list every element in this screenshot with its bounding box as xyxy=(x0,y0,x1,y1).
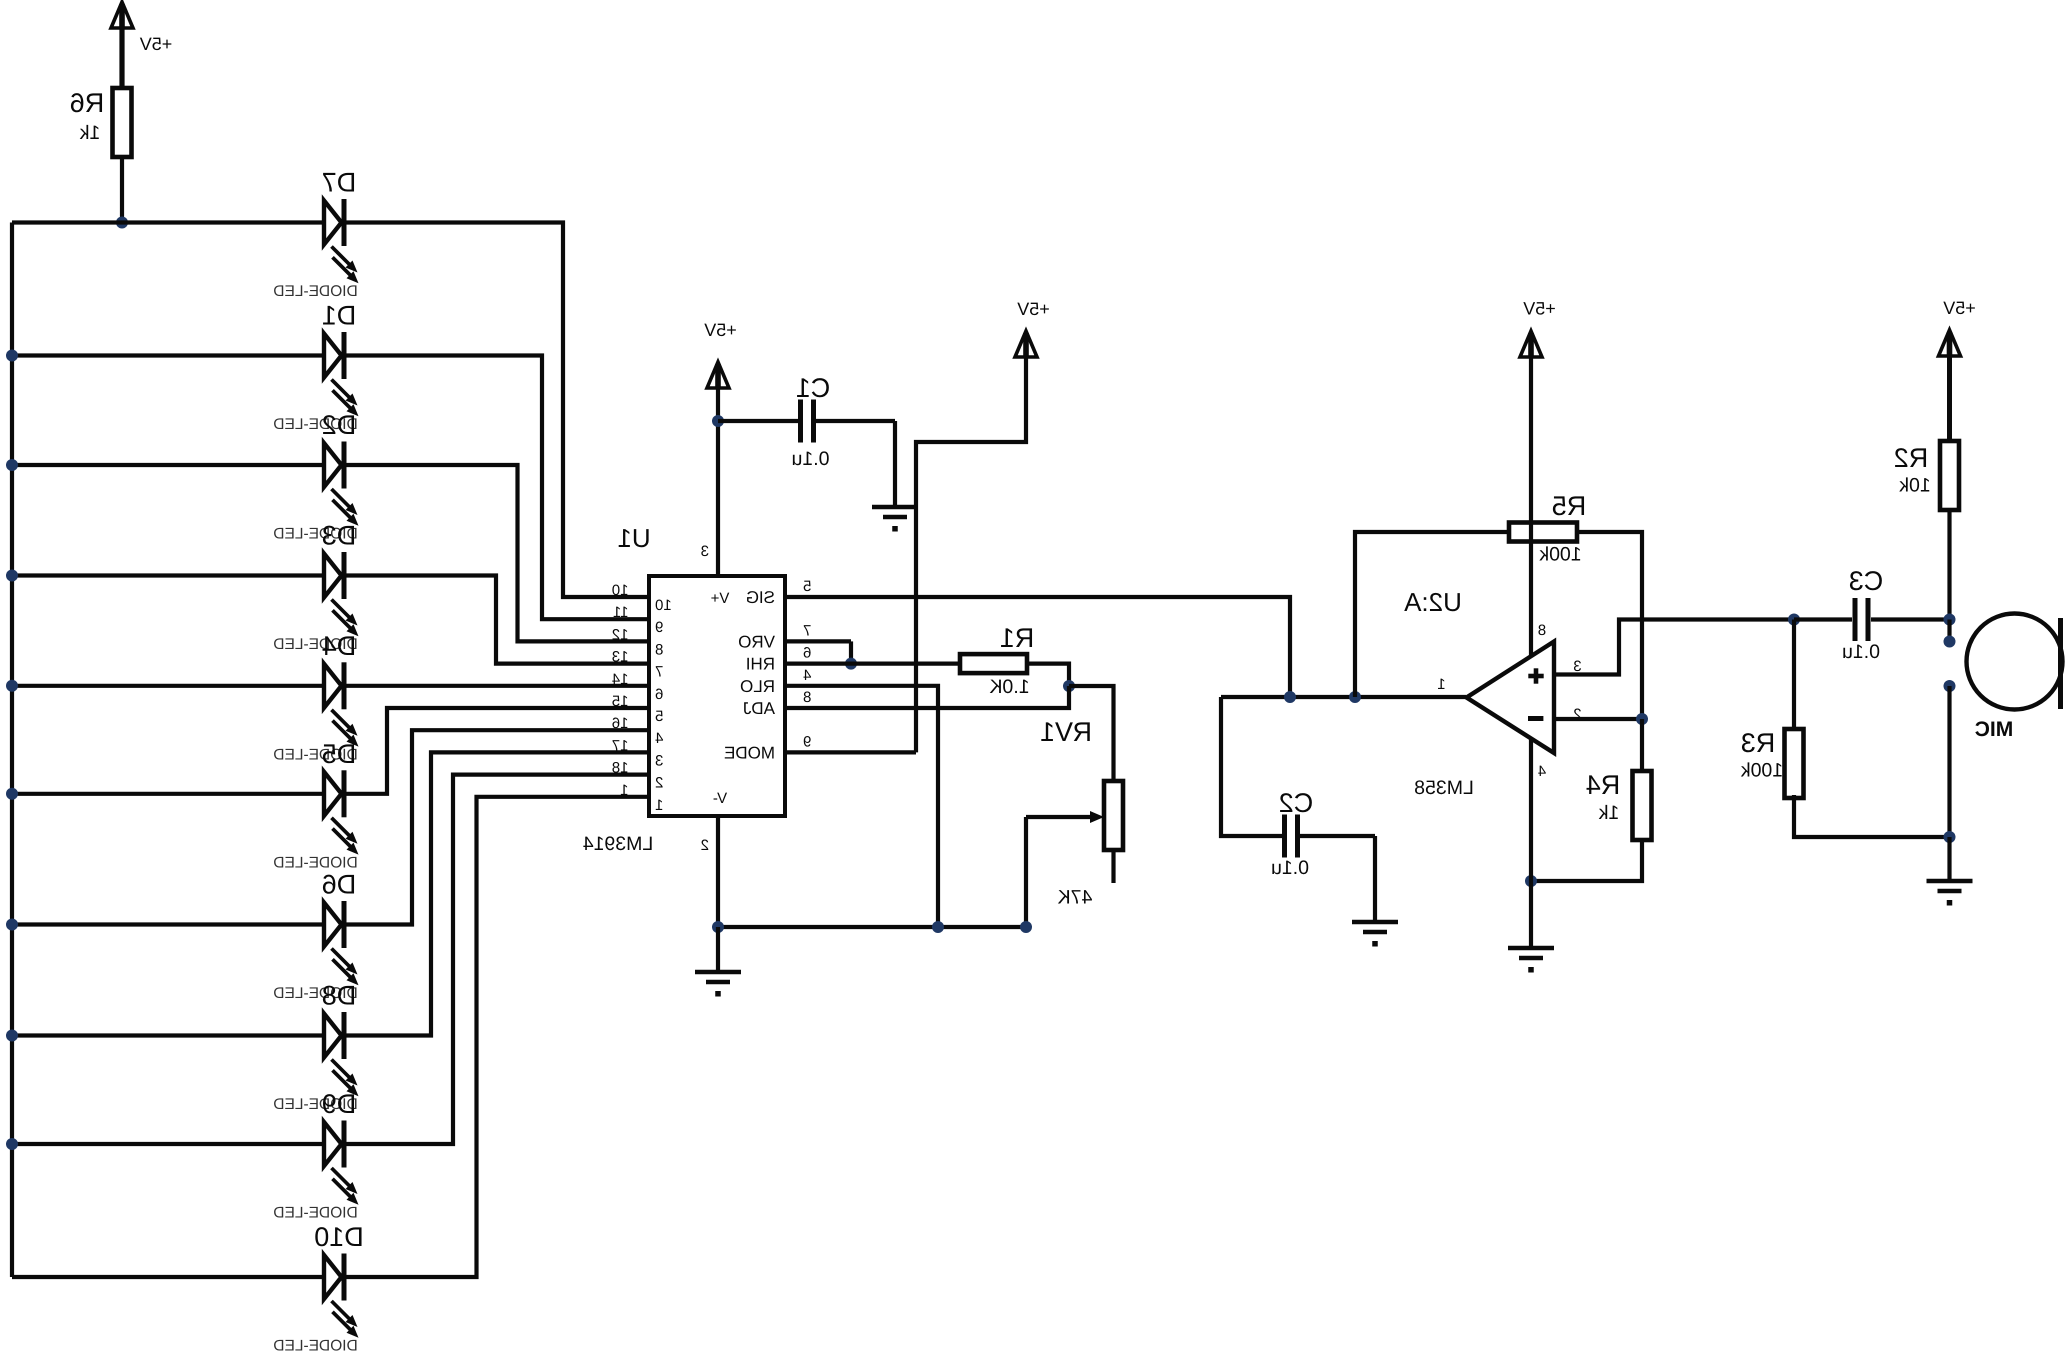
wire D3 cathode to U1 pin xyxy=(346,576,649,664)
svg-text:18: 18 xyxy=(612,760,629,777)
power +5V terminal (MODE) xyxy=(1015,331,1037,357)
wire junction to RV1 top xyxy=(1069,686,1114,781)
junction R6 / D7 row xyxy=(116,217,128,229)
wire SIG pin5 to op-amp output xyxy=(785,597,1290,697)
svg-text:0.1u: 0.1u xyxy=(792,448,830,470)
svg-text:1: 1 xyxy=(1437,676,1445,693)
svg-text:7: 7 xyxy=(803,622,811,639)
svg-text:+5V: +5V xyxy=(1943,298,1976,318)
junction bus / D1 row xyxy=(6,350,18,362)
wire VRO down to RHI xyxy=(849,641,853,663)
wire R2 to mic node xyxy=(1947,510,1951,620)
capacitor C2 xyxy=(1282,815,1287,858)
svg-text:D1: D1 xyxy=(322,301,357,331)
svg-text:2: 2 xyxy=(655,775,663,792)
junction V+ riser / C1 xyxy=(712,415,724,427)
junction pin2 / R5 / R4 xyxy=(1636,713,1648,725)
svg-text:R1: R1 xyxy=(1000,623,1035,653)
wire RV1 bottom stub xyxy=(1111,850,1115,883)
svg-text:3: 3 xyxy=(655,752,663,769)
wire U1 V- down xyxy=(716,816,720,927)
wire D4 cathode to U1 pin xyxy=(346,684,649,688)
svg-text:RV1: RV1 xyxy=(1040,717,1092,747)
wire MODE stub xyxy=(785,750,916,754)
LED D3 (DIODE-LED) xyxy=(324,552,359,636)
power +5V terminal (U2 V+) xyxy=(1520,331,1542,357)
wire D10 cathode to U1 pin xyxy=(346,797,649,1277)
svg-text:D2: D2 xyxy=(322,410,357,440)
wire non-inverting input pin3 xyxy=(1554,620,1794,675)
ground (MIC) xyxy=(1927,879,1973,884)
svg-text:12: 12 xyxy=(612,626,629,643)
wire bus to D4 anode xyxy=(12,684,324,688)
svg-text:C2: C2 xyxy=(1279,788,1314,818)
svg-text:8: 8 xyxy=(655,641,663,658)
wire MIC pin 2 to ground rail xyxy=(1947,686,1951,837)
junction R4 / V- xyxy=(1525,875,1537,887)
svg-text:0.1u: 0.1u xyxy=(1271,857,1309,879)
wire down to ground xyxy=(893,421,897,505)
potentiometer RV1 body xyxy=(1104,781,1123,850)
wire R3 bottom to ground rail xyxy=(1794,795,1950,837)
junction bus / D8 row xyxy=(6,1030,18,1042)
svg-text:R2: R2 xyxy=(1894,443,1929,473)
svg-text:11: 11 xyxy=(613,604,629,621)
svg-text:RLO: RLO xyxy=(740,677,775,696)
plus input marker xyxy=(1528,674,1543,679)
svg-text:D6: D6 xyxy=(322,870,357,900)
LED D1 (DIODE-LED) xyxy=(324,332,359,416)
svg-text:15: 15 xyxy=(612,693,629,710)
power +5V terminal (R6 supply) xyxy=(111,2,133,28)
resistor R1 xyxy=(960,654,1027,673)
svg-text:D9: D9 xyxy=(322,1089,357,1119)
svg-text:D5: D5 xyxy=(322,739,357,769)
wire to C3 xyxy=(1794,617,1852,621)
wire bus to D5 anode xyxy=(12,792,324,796)
svg-text:LM358: LM358 xyxy=(1414,777,1474,799)
junction bus / D3 row xyxy=(6,570,18,582)
wire to R4 xyxy=(1640,719,1644,771)
wire R1 to ADJ junction xyxy=(1027,664,1069,686)
svg-text:+5V: +5V xyxy=(704,320,737,340)
svg-text:1: 1 xyxy=(620,782,628,799)
resistor R3 xyxy=(1785,729,1804,798)
wire output to C2 xyxy=(1221,697,1282,836)
capacitor C3 xyxy=(1853,598,1858,641)
wire D2 cathode to U1 pin xyxy=(346,465,649,641)
svg-text:R4: R4 xyxy=(1586,770,1621,800)
svg-text:DIODE-LED: DIODE-LED xyxy=(273,1338,357,1355)
svg-text:8: 8 xyxy=(803,689,811,706)
svg-text:D7: D7 xyxy=(322,168,357,198)
wire R5 to inverting input xyxy=(1577,532,1642,719)
svg-text:V+: V+ xyxy=(710,590,729,607)
svg-text:3: 3 xyxy=(701,543,709,560)
svg-text:D3: D3 xyxy=(322,521,357,551)
wire RLO pin4 to bottom rail xyxy=(785,686,938,927)
wire rail to ground xyxy=(716,927,720,970)
svg-text:4: 4 xyxy=(803,667,811,684)
svg-text:RHI: RHI xyxy=(746,655,775,674)
resistor R6 xyxy=(113,88,132,157)
svg-text:6: 6 xyxy=(803,645,811,662)
svg-text:C1: C1 xyxy=(796,373,831,403)
svg-text:13: 13 xyxy=(612,649,629,666)
resistor R5 xyxy=(1509,523,1577,542)
ground (C2) xyxy=(1352,920,1398,925)
junction bus / D2 row xyxy=(6,459,18,471)
wire to C1 xyxy=(718,419,798,423)
svg-text:9: 9 xyxy=(803,733,811,750)
wire feedback to R5 xyxy=(1355,532,1509,697)
wire RHI to R1 xyxy=(785,661,960,665)
svg-text:8: 8 xyxy=(1538,622,1546,639)
ground (C1) xyxy=(872,505,918,510)
wire C3 to mic node xyxy=(1871,617,1950,621)
junction pin3 / C3 / R3 xyxy=(1788,614,1800,626)
svg-text:5: 5 xyxy=(803,578,811,595)
junction R2 / C3 / MIC xyxy=(1944,614,1956,626)
wire VRO stub xyxy=(785,639,851,643)
junction R3 / MIC / ground xyxy=(1944,831,1956,843)
svg-text:7: 7 xyxy=(655,664,663,681)
MIC pin 2 terminal xyxy=(1944,680,1956,692)
IC U1 LM3914 body xyxy=(649,576,785,816)
RV1 wiper arrow xyxy=(1026,815,1092,819)
svg-text:V-: V- xyxy=(713,790,727,807)
wire +5V to pin 8 xyxy=(1529,356,1533,656)
junction rail / RLO xyxy=(932,921,944,933)
svg-text:100k: 100k xyxy=(1539,544,1582,566)
svg-text:DIODE-LED: DIODE-LED xyxy=(273,283,357,300)
wire down to R3 xyxy=(1792,620,1796,730)
power +5V terminal (R2) xyxy=(1939,330,1961,356)
junction bus / D9 row xyxy=(6,1138,18,1150)
wire +5V to R6 xyxy=(119,27,124,88)
svg-text:1k: 1k xyxy=(79,122,100,144)
svg-text:1.0K: 1.0K xyxy=(989,676,1029,698)
resistor R2 xyxy=(1940,441,1959,510)
svg-text:MODE: MODE xyxy=(724,743,775,762)
resistor R4 xyxy=(1633,771,1652,840)
svg-text:U2:A: U2:A xyxy=(1403,587,1461,617)
wire D6 cathode to U1 pin xyxy=(346,730,649,924)
ground (U2) xyxy=(1508,946,1554,951)
svg-text:+5V: +5V xyxy=(1017,299,1050,319)
svg-text:2: 2 xyxy=(701,837,709,854)
svg-text:6: 6 xyxy=(655,686,663,703)
svg-text:10: 10 xyxy=(655,597,672,614)
wire pin2 stub xyxy=(1554,717,1642,721)
svg-text:10: 10 xyxy=(612,582,629,599)
wire op-amp output xyxy=(1221,695,1466,699)
wire R6 to D7 anode row xyxy=(120,157,124,223)
microphone MIC body xyxy=(1967,614,2063,710)
svg-text:5: 5 xyxy=(655,708,663,725)
svg-text:R6: R6 xyxy=(70,88,105,118)
svg-text:DIODE-LED: DIODE-LED xyxy=(273,1205,357,1222)
wire R4 bottom to V- rail xyxy=(1531,841,1642,881)
svg-text:9: 9 xyxy=(655,619,663,636)
svg-text:R3: R3 xyxy=(1741,728,1776,758)
wire pin 4 to ground xyxy=(1529,738,1533,946)
svg-text:+5V: +5V xyxy=(1523,299,1556,319)
wire ADJ pin8 xyxy=(785,686,1069,708)
wire to MIC pin 1 xyxy=(1947,620,1951,642)
LED D10 (DIODE-LED) xyxy=(324,1254,359,1338)
wire left anode bus xyxy=(10,223,14,1278)
LED D6 (DIODE-LED) xyxy=(324,901,359,985)
svg-text:MIC: MIC xyxy=(1975,718,2014,741)
wire wiper down to rail xyxy=(1024,817,1028,927)
svg-text:14: 14 xyxy=(612,671,629,688)
svg-text:10k: 10k xyxy=(1899,475,1931,497)
svg-text:C3: C3 xyxy=(1849,566,1884,596)
LED D5 (DIODE-LED) xyxy=(324,770,359,854)
wire bus to D1 anode xyxy=(12,353,324,357)
wire to ground xyxy=(1947,837,1951,879)
LED D8 (DIODE-LED) xyxy=(324,1012,359,1096)
junction VRO / RHI xyxy=(845,658,857,670)
junction bus / D6 row xyxy=(6,919,18,931)
svg-text:100k: 100k xyxy=(1741,760,1784,782)
junction bus / D5 row xyxy=(6,788,18,800)
wire +5V to U1 V+ xyxy=(716,387,720,576)
wire bus to D10 anode xyxy=(12,1275,324,1279)
wire bottom rail xyxy=(718,925,1026,929)
wire +5V to MODE pin 9 xyxy=(916,356,1026,752)
wire down to ground xyxy=(1373,836,1377,920)
wire bus to D2 anode xyxy=(12,463,324,467)
svg-text:17: 17 xyxy=(612,737,629,754)
wire +5V to R2 xyxy=(1947,356,1952,441)
svg-text:SIG: SIG xyxy=(746,588,775,607)
svg-text:1: 1 xyxy=(655,797,663,814)
power +5V terminal (U1 V+) xyxy=(707,362,729,388)
wire D5 cathode to U1 pin xyxy=(346,708,649,794)
svg-text:ADJ: ADJ xyxy=(743,699,775,718)
wire bus to D8 anode xyxy=(12,1033,324,1037)
LED D2 (DIODE-LED) xyxy=(324,442,359,526)
wire bus to D3 anode xyxy=(12,573,324,577)
junction rail / V- xyxy=(712,921,724,933)
wire C1 to ground xyxy=(816,419,895,423)
LED D4 (DIODE-LED) xyxy=(324,662,359,746)
svg-text:4: 4 xyxy=(1538,763,1546,780)
svg-text:D4: D4 xyxy=(322,631,357,661)
LED D9 (DIODE-LED) xyxy=(324,1121,359,1205)
junction R1 / ADJ / RV1 xyxy=(1063,680,1075,692)
ground (U1) xyxy=(695,970,741,975)
svg-text:U1: U1 xyxy=(617,523,650,553)
LED D7 (DIODE-LED) xyxy=(324,199,359,283)
svg-text:47K: 47K xyxy=(1058,887,1093,909)
junction bus / D4 row xyxy=(6,680,18,692)
wire D1 cathode to U1 pin xyxy=(346,356,649,620)
op-amp U2:A triangle xyxy=(1467,642,1555,754)
svg-text:+5V: +5V xyxy=(140,34,173,54)
junction output / SIG xyxy=(1284,691,1296,703)
MIC pin 1 terminal xyxy=(1944,636,1956,648)
svg-text:1k: 1k xyxy=(1598,802,1619,824)
wire bus to D6 anode xyxy=(12,922,324,926)
wire D9 cathode to U1 pin xyxy=(346,775,649,1144)
wire D8 cathode to U1 pin xyxy=(346,752,649,1035)
junction output / feedback xyxy=(1349,691,1361,703)
svg-text:D8: D8 xyxy=(322,981,357,1011)
svg-text:D10: D10 xyxy=(314,1222,364,1252)
svg-text:R5: R5 xyxy=(1552,491,1587,521)
wire bus to D7 anode xyxy=(12,220,324,224)
svg-text:VRO: VRO xyxy=(738,632,775,651)
wire D7 cathode to U1 pin xyxy=(346,223,649,598)
svg-text:LM3914: LM3914 xyxy=(583,833,654,855)
svg-text:4: 4 xyxy=(655,730,663,747)
svg-text:16: 16 xyxy=(612,715,629,732)
svg-text:0.1u: 0.1u xyxy=(1842,641,1880,663)
junction rail / wiper xyxy=(1020,921,1032,933)
wire C2 to ground xyxy=(1300,834,1375,838)
capacitor C1 xyxy=(798,400,803,443)
minus input marker xyxy=(1528,716,1543,721)
wire bus to D9 anode xyxy=(12,1142,324,1146)
